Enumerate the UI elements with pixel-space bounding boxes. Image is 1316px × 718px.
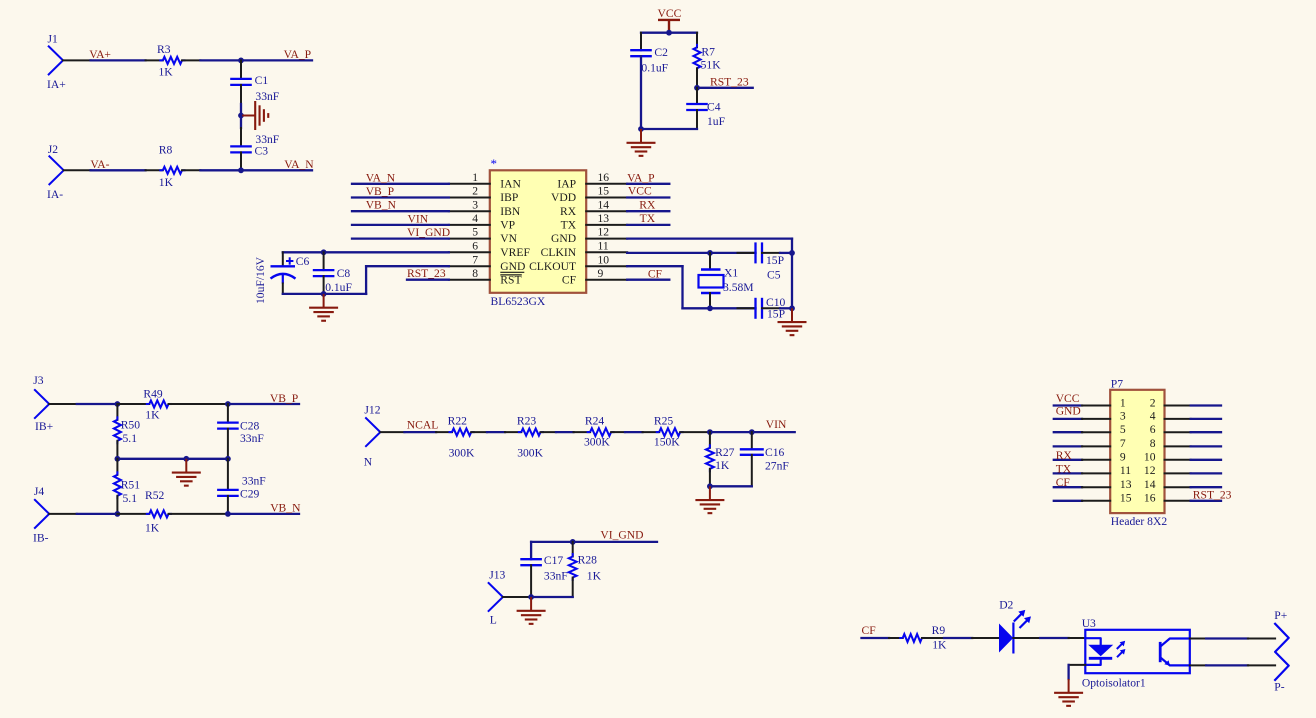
svg-text:CLKIN: CLKIN — [541, 246, 577, 259]
svg-text:1K: 1K — [145, 409, 160, 422]
svg-text:VP: VP — [500, 219, 515, 232]
pin 10 — [1144, 451, 1221, 464]
svg-text:15: 15 — [1120, 492, 1132, 505]
pin 8 RST overline — [500, 274, 522, 276]
svg-text:7: 7 — [472, 253, 478, 266]
svg-text:VCC: VCC — [1056, 392, 1080, 405]
U3 phototransistor — [1160, 639, 1190, 666]
svg-text:C29: C29 — [240, 487, 260, 500]
svg-text:5: 5 — [472, 226, 478, 239]
wire R8 to node VA_N — [200, 169, 241, 171]
junction — [749, 429, 755, 435]
pin 14 RX — [560, 198, 627, 218]
pin 10 CLKOUT — [529, 253, 627, 273]
svg-text:J12: J12 — [364, 404, 380, 417]
IC U? BL6523GX body — [490, 170, 586, 292]
junction — [570, 539, 576, 545]
svg-text:300K: 300K — [517, 447, 543, 460]
svg-text:R27: R27 — [715, 446, 735, 459]
svg-text:300K: 300K — [584, 435, 610, 448]
wire pin1 — [352, 183, 449, 185]
svg-text:CF: CF — [1056, 476, 1071, 489]
junction — [707, 483, 713, 489]
pin 11 — [1054, 464, 1131, 477]
svg-text:14: 14 — [598, 198, 610, 211]
pin 2 IBP — [449, 185, 519, 205]
svg-text:5.1: 5.1 — [123, 492, 138, 505]
svg-text:GND: GND — [1056, 405, 1081, 418]
svg-text:300K: 300K — [449, 447, 475, 460]
svg-text:P7: P7 — [1111, 378, 1123, 391]
wire pin11 to crystal — [627, 252, 755, 254]
svg-text:6: 6 — [472, 239, 478, 252]
svg-text:3.58M: 3.58M — [723, 281, 754, 294]
svg-text:CF: CF — [648, 267, 663, 280]
wire U3 collector to P+ — [1190, 638, 1275, 640]
svg-text:R23: R23 — [517, 415, 537, 428]
junction — [789, 250, 795, 256]
svg-text:IB+: IB+ — [35, 420, 53, 433]
svg-text:8: 8 — [472, 267, 478, 280]
wire R22-R23 — [487, 431, 505, 433]
svg-text:1K: 1K — [145, 522, 160, 535]
svg-text:VA_N: VA_N — [284, 158, 314, 171]
svg-text:IAP: IAP — [557, 177, 576, 190]
svg-text:RST_23: RST_23 — [1193, 488, 1232, 501]
svg-text:16: 16 — [598, 171, 610, 184]
svg-text:VI_GND: VI_GND — [407, 226, 450, 239]
capacitor C28 — [217, 404, 264, 459]
wire pin5 — [352, 237, 449, 239]
svg-text:15: 15 — [598, 185, 610, 198]
junction — [225, 401, 231, 407]
svg-text:VIN: VIN — [766, 418, 787, 431]
svg-text:11: 11 — [598, 239, 609, 252]
capacitor C29 — [217, 459, 266, 514]
svg-text:1K: 1K — [932, 639, 947, 652]
svg-text:GND: GND — [500, 260, 525, 273]
svg-text:VI_GND: VI_GND — [600, 529, 643, 542]
junction — [238, 167, 244, 173]
svg-text:11: 11 — [1120, 464, 1131, 477]
pin 4 — [1150, 410, 1221, 423]
svg-text:R25: R25 — [654, 415, 674, 428]
capacitor C10 — [738, 296, 793, 321]
wire pin8 RST_23 — [407, 279, 449, 281]
svg-text:15P: 15P — [766, 254, 784, 267]
svg-text:C4: C4 — [707, 101, 721, 114]
svg-text:6: 6 — [1150, 423, 1156, 436]
ground — [709, 486, 711, 500]
svg-text:4: 4 — [472, 212, 478, 225]
svg-text:VB_N: VB_N — [366, 199, 397, 212]
svg-text:IBN: IBN — [500, 205, 521, 218]
svg-text:1K: 1K — [159, 66, 174, 79]
wire middle rail — [117, 458, 227, 460]
pin 11 CLKIN — [541, 239, 628, 259]
wire bottom rail C6 C8 — [283, 293, 366, 295]
svg-text:33nF: 33nF — [544, 570, 568, 583]
svg-text:VB_N: VB_N — [270, 502, 301, 515]
connector P+ P- — [1274, 609, 1288, 693]
wire U3 cathode to ground — [1069, 665, 1086, 679]
pin 8 RST — [449, 267, 522, 287]
ground earth mid — [241, 115, 255, 117]
svg-text:GND: GND — [551, 232, 576, 245]
svg-text:IA-: IA- — [47, 188, 63, 201]
pin 14 — [1144, 478, 1221, 491]
junction — [225, 511, 231, 517]
svg-text:IBP: IBP — [500, 191, 518, 204]
wire CF run — [862, 637, 890, 639]
svg-text:13: 13 — [598, 212, 610, 225]
svg-text:VIN: VIN — [408, 212, 429, 225]
svg-text:P+: P+ — [1274, 609, 1287, 622]
svg-text:VREF: VREF — [500, 246, 530, 259]
pin 15 VDD — [551, 185, 627, 205]
svg-text:D2: D2 — [999, 599, 1013, 612]
LED D2 — [999, 599, 1031, 654]
pin 12 — [1144, 464, 1221, 477]
svg-text:9: 9 — [1120, 451, 1126, 464]
resistor R8 — [146, 143, 201, 188]
svg-text:27nF: 27nF — [765, 459, 789, 472]
ground — [530, 597, 532, 611]
svg-text:RST_23: RST_23 — [710, 75, 749, 88]
svg-text:0.1uF: 0.1uF — [641, 62, 668, 75]
wire R3 to node VA_P — [200, 59, 241, 61]
pin 7 GND underline — [500, 271, 524, 273]
ground — [185, 459, 187, 473]
svg-text:J3: J3 — [33, 374, 44, 387]
svg-text:R8: R8 — [159, 143, 173, 156]
pin 7 — [1054, 437, 1126, 450]
pin 6 — [1150, 423, 1221, 436]
svg-text:TX: TX — [640, 212, 656, 225]
connector J1 — [47, 33, 66, 92]
wire pin4 — [352, 224, 449, 226]
junction — [115, 401, 121, 407]
pin 12 GND — [551, 226, 627, 246]
svg-text:VDD: VDD — [551, 191, 576, 204]
wire RST_23 stub — [697, 87, 753, 89]
svg-text:51K: 51K — [701, 59, 722, 72]
svg-text:Header 8X2: Header 8X2 — [1111, 515, 1168, 528]
svg-text:33nF: 33nF — [240, 432, 264, 445]
ground — [1068, 679, 1070, 693]
ground — [791, 308, 793, 322]
wire VI_GND run — [531, 541, 657, 543]
resistor R7 — [694, 33, 722, 88]
U3 LED arrows — [1117, 641, 1126, 657]
svg-text:R9: R9 — [932, 624, 946, 637]
svg-text:C3: C3 — [255, 145, 269, 158]
wire pin14 — [627, 210, 669, 212]
svg-text:C2: C2 — [654, 46, 668, 59]
svg-text:C8: C8 — [337, 267, 351, 280]
svg-text:1K: 1K — [715, 459, 730, 472]
capacitor C6 electrolytic — [271, 252, 310, 294]
svg-text:R51: R51 — [121, 478, 141, 491]
junction — [694, 85, 700, 91]
wire J12 to R22 — [380, 431, 436, 433]
svg-text:R7: R7 — [701, 46, 715, 59]
junction — [707, 305, 713, 311]
wire pin3 — [352, 210, 449, 212]
pin 13 TX — [561, 212, 628, 232]
svg-text:2: 2 — [472, 185, 478, 198]
junction — [321, 249, 327, 255]
connector J12 — [364, 404, 381, 469]
svg-text:IA+: IA+ — [47, 78, 66, 91]
svg-text:12: 12 — [1144, 464, 1156, 477]
wire pin10 route — [627, 266, 755, 308]
svg-text:J13: J13 — [489, 569, 505, 582]
wire pin9 CF stub — [627, 279, 669, 281]
junction — [528, 594, 534, 600]
svg-text:5.1: 5.1 — [123, 432, 138, 445]
svg-text:J4: J4 — [34, 485, 45, 498]
resistor R23 — [505, 415, 556, 460]
wire R24-R25 — [625, 431, 643, 433]
svg-text:TX: TX — [1056, 462, 1072, 475]
svg-text:L: L — [490, 614, 497, 627]
svg-text:RX: RX — [560, 205, 577, 218]
wire VCC bottom rail — [641, 128, 697, 130]
wire J4 to junction — [49, 513, 117, 515]
svg-text:C16: C16 — [765, 446, 785, 459]
junction — [321, 291, 327, 297]
U3 internal LED — [1085, 638, 1113, 665]
svg-text:BL6523GX: BL6523GX — [491, 295, 546, 308]
svg-text:12: 12 — [598, 226, 610, 239]
svg-text:2: 2 — [1150, 396, 1156, 409]
svg-text:CLKOUT: CLKOUT — [529, 260, 576, 273]
capacitor C1 — [230, 60, 280, 115]
svg-text:1K: 1K — [159, 176, 174, 189]
svg-text:VCC: VCC — [658, 7, 682, 20]
capacitor C16 — [740, 432, 790, 486]
svg-text:8: 8 — [1150, 437, 1156, 450]
svg-text:4: 4 — [1150, 410, 1156, 423]
pin 16 IAP — [557, 171, 627, 191]
svg-text:13: 13 — [1120, 478, 1132, 491]
svg-text:*: * — [491, 156, 498, 171]
svg-text:0.1uF: 0.1uF — [325, 281, 352, 294]
svg-text:R50: R50 — [121, 418, 141, 431]
crystal X1 — [699, 253, 754, 308]
svg-text:10: 10 — [1144, 451, 1156, 464]
pin 6 VREF — [449, 239, 531, 259]
wire pin13 — [627, 224, 669, 226]
wire pin12 to right rail — [627, 239, 792, 253]
svg-text:1: 1 — [472, 171, 478, 184]
svg-text:P-: P- — [1274, 680, 1284, 693]
wire VA- J2 to R8 — [64, 169, 146, 171]
svg-text:R24: R24 — [585, 415, 605, 428]
wire pin6 rail — [283, 251, 449, 253]
ground — [640, 129, 642, 143]
pin 9 — [1054, 451, 1126, 464]
wire pin7 route — [366, 266, 449, 294]
header P7 body — [1110, 390, 1164, 513]
svg-text:R3: R3 — [157, 43, 171, 56]
junction — [707, 250, 713, 256]
svg-text:R22: R22 — [448, 415, 468, 428]
wire R9 to D2 — [944, 637, 999, 639]
connector J4 — [33, 485, 49, 545]
svg-text:RST_23: RST_23 — [407, 267, 446, 280]
wire U3 emitter to P- — [1190, 664, 1275, 666]
svg-text:3: 3 — [1120, 410, 1126, 423]
svg-text:VA_P: VA_P — [284, 48, 312, 61]
svg-text:VA_N: VA_N — [366, 171, 396, 184]
svg-text:C6: C6 — [296, 255, 310, 268]
svg-text:7: 7 — [1120, 437, 1126, 450]
svg-text:RX: RX — [1056, 449, 1073, 462]
svg-text:15P: 15P — [767, 308, 785, 321]
svg-text:TX: TX — [561, 219, 577, 232]
capacitor C2 — [630, 33, 668, 129]
svg-text:VCC: VCC — [628, 185, 652, 198]
resistor R27 — [706, 432, 735, 486]
pin 15 — [1054, 492, 1132, 505]
wire J13 bottom — [503, 596, 573, 598]
svg-text:VA+: VA+ — [89, 48, 111, 61]
svg-text:VA-: VA- — [90, 158, 109, 171]
svg-text:CF: CF — [862, 624, 877, 637]
svg-text:R52: R52 — [145, 489, 165, 502]
optoisolator U3 body — [1085, 630, 1190, 673]
wire pin16 — [627, 183, 669, 185]
junction — [238, 58, 244, 64]
svg-text:10: 10 — [598, 253, 610, 266]
resistor R28 — [569, 542, 602, 597]
junction — [238, 113, 244, 119]
svg-text:VA_P: VA_P — [627, 171, 655, 184]
pin 2 — [1150, 396, 1221, 409]
svg-text:R49: R49 — [143, 388, 163, 401]
svg-text:C1: C1 — [255, 74, 269, 87]
resistor R25 — [643, 415, 710, 449]
resistor R9 — [889, 624, 947, 652]
pin 1 — [1054, 396, 1126, 409]
svg-text:33nF: 33nF — [255, 90, 279, 103]
svg-text:J1: J1 — [48, 33, 59, 46]
wire to VIN — [710, 431, 795, 433]
junction — [115, 456, 121, 462]
pin 13 — [1054, 478, 1132, 491]
wire right rail — [791, 253, 793, 308]
wire bottom loop — [710, 485, 752, 487]
svg-text:14: 14 — [1144, 478, 1156, 491]
junction — [225, 456, 231, 462]
capacitor C17 — [520, 542, 568, 597]
wire J3 to junction — [49, 403, 117, 405]
pin 3 IBN — [449, 198, 521, 218]
capacitor C8 — [313, 252, 353, 294]
svg-text:C28: C28 — [240, 420, 260, 433]
resistor R3 — [146, 43, 201, 78]
wire pin15 — [627, 196, 669, 198]
wire VA_N stub — [241, 169, 312, 171]
svg-text:R28: R28 — [578, 553, 598, 566]
pin 7 GND — [449, 253, 526, 273]
svg-text:VB_P: VB_P — [270, 392, 298, 405]
svg-text:CF: CF — [562, 273, 577, 286]
junction — [115, 511, 121, 517]
svg-text:RX: RX — [639, 198, 656, 211]
connector J3 — [33, 374, 53, 433]
svg-text:150K: 150K — [654, 435, 680, 448]
pin 5 VN — [449, 226, 518, 246]
svg-text:Optoisolator1: Optoisolator1 — [1082, 677, 1146, 690]
svg-text:J2: J2 — [48, 143, 59, 156]
svg-text:C17: C17 — [544, 554, 564, 567]
svg-text:X1: X1 — [724, 267, 738, 280]
svg-text:3: 3 — [472, 198, 478, 211]
pin 16 — [1144, 492, 1221, 505]
wire R23-R24 — [556, 431, 574, 433]
connector J2 — [47, 143, 64, 201]
pin 4 VP — [449, 212, 515, 232]
svg-text:9: 9 — [598, 267, 604, 280]
svg-text:VN: VN — [500, 232, 517, 245]
capacitor C4 — [686, 88, 725, 129]
svg-text:1: 1 — [1120, 396, 1126, 409]
svg-text:1uF: 1uF — [707, 115, 726, 128]
svg-text:IB-: IB- — [33, 532, 49, 545]
svg-text:VB_P: VB_P — [366, 185, 394, 198]
resistor R22 — [436, 415, 487, 460]
connector J13 — [489, 569, 506, 627]
svg-text:10uF/16V: 10uF/16V — [254, 256, 267, 304]
junction — [789, 305, 795, 311]
junction — [183, 456, 189, 462]
pin 8 — [1150, 437, 1221, 450]
wire pin2 — [352, 196, 449, 198]
svg-text:33nF: 33nF — [242, 475, 266, 488]
svg-text:NCAL: NCAL — [407, 419, 439, 432]
svg-text:16: 16 — [1144, 492, 1156, 505]
pin 3 — [1054, 410, 1126, 423]
wire VA_P stub — [241, 59, 312, 61]
resistor R24 — [574, 415, 626, 449]
resistor R49 — [117, 388, 227, 422]
junction — [638, 126, 644, 132]
wire VA+ J1 to R3 — [63, 59, 146, 61]
junction — [707, 429, 713, 435]
capacitor C5 — [738, 242, 793, 281]
pin 9 CF — [562, 267, 627, 287]
wire VB_P stub — [228, 403, 299, 405]
resistor R52 — [117, 489, 227, 535]
ground — [323, 294, 325, 308]
power port VCC — [658, 7, 682, 33]
pin 1 IAN — [449, 171, 522, 191]
resistor R50 — [114, 404, 140, 459]
junction — [666, 30, 672, 36]
svg-text:5: 5 — [1120, 423, 1126, 436]
wire VCC top rail — [641, 32, 697, 34]
pin 5 — [1054, 423, 1126, 436]
capacitor C3 — [230, 116, 280, 171]
svg-text:U3: U3 — [1082, 617, 1096, 630]
svg-text:1K: 1K — [587, 570, 602, 583]
wire VB_N stub — [228, 513, 299, 515]
svg-text:N: N — [364, 456, 373, 469]
wire D2 to U3 — [1013, 637, 1085, 639]
